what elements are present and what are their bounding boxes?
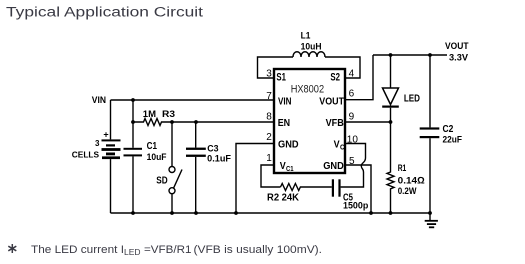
svg-text:10uH: 10uH (301, 42, 322, 52)
node pin2 / ground rail (234, 211, 238, 215)
battery 3 CELLS (72, 130, 121, 160)
svg-text:VIN: VIN (92, 95, 106, 105)
ground (425, 213, 438, 228)
svg-text:22uF: 22uF (443, 135, 463, 146)
svg-text:VOUT: VOUT (319, 95, 344, 107)
svg-text:S2: S2 (330, 72, 340, 84)
svg-text:C1: C1 (147, 141, 158, 152)
pin number 9 (349, 112, 355, 123)
svg-text:V: V (280, 160, 286, 172)
resistor R1 0.14ohm (387, 122, 425, 213)
svg-text:L1: L1 (301, 31, 311, 41)
pin number 2 (266, 132, 272, 143)
capacitor C5 1500p (332, 172, 369, 212)
svg-text:SD: SD (156, 176, 167, 187)
net label VIN (92, 95, 106, 105)
svg-text:6: 6 (349, 89, 355, 100)
pin number 3 (266, 69, 272, 80)
svg-text:R2 24K: R2 24K (267, 193, 300, 204)
svg-text:1: 1 (266, 153, 272, 164)
pin number 7 (266, 91, 272, 102)
wire battery bottom (110, 159, 112, 213)
resistor R3 1M (133, 109, 274, 126)
pin number 5 (349, 156, 355, 167)
svg-text:9: 9 (349, 112, 355, 123)
node SD tap (170, 120, 174, 124)
node C3 / ground rail (194, 211, 198, 215)
svg-text:1M: 1M (143, 109, 156, 120)
node C3 tap (194, 120, 198, 124)
pin number 4 (349, 69, 355, 80)
svg-text:10uF: 10uF (147, 152, 167, 162)
svg-text:CELLS: CELLS (72, 151, 100, 160)
pin number 10 (347, 135, 359, 146)
resistor R2 24K (267, 184, 332, 204)
svg-text:(VFB is usually 100mV).: (VFB is usually 100mV). (194, 244, 323, 256)
wire left rail lower (132, 156, 134, 213)
node R1 / ground rail (389, 211, 393, 215)
wire ground rail bottom (111, 212, 431, 214)
pin number 6 (349, 89, 355, 100)
node VFB / LED / R1 (389, 120, 393, 124)
wire battery top drop (110, 100, 112, 139)
svg-text:HX8002: HX8002 (291, 83, 324, 95)
wire VOUT pin6 riser (345, 55, 373, 100)
svg-text:R1: R1 (398, 163, 407, 174)
pin number 1 (266, 153, 272, 164)
svg-text:0.2W: 0.2W (398, 186, 417, 197)
svg-text:C: C (340, 142, 345, 151)
capacitor C2 22uF (420, 55, 462, 213)
svg-text:C1: C1 (286, 164, 294, 173)
svg-text:Typical Application Circuit: Typical Application Circuit (6, 5, 203, 21)
wire VOUT top rail (373, 54, 447, 56)
wire left rail upper (132, 100, 134, 148)
wire GND pin2 to ground rail (236, 144, 274, 214)
wire VC1 pin1 (261, 165, 281, 187)
wire VC pin10 with hop over pin5 stub (345, 144, 366, 173)
switch SD (156, 122, 182, 213)
inductor L1 10uH (258, 31, 361, 79)
node pin5 / ground rail (369, 211, 373, 215)
wire VFB pin9 (345, 121, 391, 123)
svg-text:The LED current I: The LED current I (31, 244, 124, 256)
node C2 / ground rail (428, 211, 432, 215)
svg-text:S1: S1 (276, 72, 286, 84)
pin number 8 (266, 112, 272, 123)
svg-text:GND: GND (323, 160, 344, 172)
svg-text:0.1uF: 0.1uF (207, 154, 231, 164)
svg-text:0.14Ω: 0.14Ω (398, 176, 425, 187)
svg-text:LED: LED (124, 248, 141, 257)
svg-text:EN: EN (278, 117, 290, 129)
op-amp U1 HX8002 body (274, 69, 345, 173)
node LED / top rail (389, 53, 393, 57)
svg-text:VOUT: VOUT (445, 41, 469, 51)
svg-text:VIN: VIN (278, 95, 292, 107)
svg-text:3: 3 (95, 139, 100, 148)
capacitor C3 (186, 122, 231, 213)
title (6, 5, 203, 21)
node C2 / top rail (428, 53, 432, 57)
node left rail / ground rail (131, 211, 135, 215)
node VIN junction (131, 98, 135, 102)
svg-text:C2: C2 (443, 124, 454, 135)
svg-text:=VFB/R1: =VFB/R1 (144, 244, 192, 256)
svg-text:V: V (334, 139, 340, 151)
net label VOUT 3.3V (445, 41, 469, 62)
svg-text:1500p: 1500p (343, 201, 368, 212)
svg-text:VFB: VFB (326, 117, 345, 129)
svg-text:8: 8 (266, 112, 272, 123)
capacitor C1 (124, 141, 167, 162)
node SD / ground rail (170, 211, 174, 215)
svg-text:+: + (103, 130, 108, 140)
svg-text:GND: GND (278, 139, 299, 151)
svg-text:2: 2 (266, 132, 272, 143)
svg-text:LED: LED (404, 94, 420, 105)
note text (31, 244, 322, 257)
note star (8, 244, 16, 253)
LED D1 (382, 55, 420, 122)
wire VIN rail (111, 99, 275, 101)
svg-text:R3: R3 (162, 109, 175, 120)
node left rail / R3 (131, 120, 135, 124)
wire GND pin5 to ground rail (345, 165, 371, 213)
svg-text:3.3V: 3.3V (449, 52, 468, 62)
